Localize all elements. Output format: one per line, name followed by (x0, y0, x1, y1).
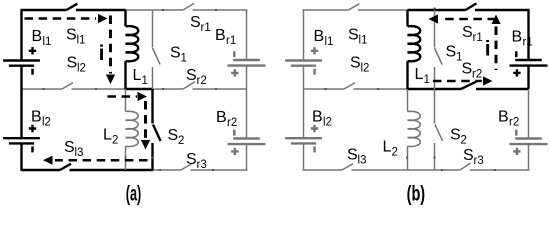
switch Sr1 blade panel a (183, 3, 194, 10)
label Br2 panel b (498, 109, 519, 129)
wire middle-left panel a (22, 88, 63, 90)
wire right rail mid panel a (246, 66, 248, 89)
battery Bl1 panel b plus sign (311, 47, 318, 54)
switch S1 blade panel b (435, 48, 443, 65)
battery Br1 panel a minus mark (233, 51, 236, 57)
battery Br1 panel b negative plate (515, 59, 542, 61)
wire middle-left panel b (304, 88, 345, 90)
wire inductor rail bottom panel a (125, 146, 127, 170)
label S1 panel b (446, 44, 463, 64)
svg-text:L: L (103, 127, 112, 144)
current arrow middle stem panel a (108, 95, 138, 98)
label Sl3 (64, 139, 83, 159)
svg-text:1: 1 (424, 74, 430, 86)
inductor L2 panel b (408, 111, 421, 146)
battery Bl2 panel b minus mark (313, 146, 316, 152)
wire left rail middle panel b (303, 66, 305, 139)
wire S2 rail top panel a (151, 89, 153, 124)
current arrow up head panel b (491, 15, 500, 25)
current arrow top head panel b (429, 14, 439, 23)
svg-text:(a): (a) (126, 183, 142, 206)
svg-text:2: 2 (461, 134, 467, 146)
label Br2 (216, 109, 237, 129)
wire top-right panel b (408, 9, 466, 11)
svg-text:l2: l2 (361, 62, 370, 74)
current arrow down-1 stem panel a (109, 16, 112, 74)
switch S2 blade panel b (435, 125, 443, 142)
switch Sr1 blade panel b (466, 3, 477, 10)
svg-text:r1: r1 (523, 36, 533, 48)
switch S2 blade panel a (153, 125, 161, 142)
svg-text:B: B (312, 109, 323, 126)
switch Sl2 blade panel b (344, 83, 355, 89)
wire right rail lower panel a (246, 144, 248, 170)
battery Bl1 panel a plus sign (29, 47, 36, 54)
svg-text:r3: r3 (197, 159, 207, 171)
switch Sr2 blade panel b (461, 82, 476, 89)
battery Br1 panel a plus sign (231, 69, 238, 76)
svg-text:S: S (446, 44, 457, 61)
battery Br1 panel a positive plate (228, 64, 266, 66)
svg-text:i: i (485, 37, 491, 60)
svg-text:S: S (66, 27, 77, 44)
wire S1 rail top panel a (152, 10, 154, 48)
label Bl2 (31, 109, 51, 129)
wire joint dot (215, 9, 217, 11)
wire joint dot (159, 169, 161, 171)
switch Sr3 blade panel b (460, 163, 470, 170)
battery Bl2 panel a plus sign (29, 125, 36, 132)
wire bottom-right panel a (153, 169, 182, 171)
battery Br2 panel b plus sign (513, 148, 520, 155)
wire middle-right panel b (435, 88, 462, 90)
battery Bl1 panel a minus mark (31, 69, 34, 75)
wire inductor rail mid panel a (124, 61, 126, 89)
label Bl2 panel b (312, 109, 332, 129)
svg-text:1: 1 (142, 75, 148, 87)
current arrow down-1 head panel a (106, 75, 115, 85)
wire left rail upper panel b (303, 10, 305, 61)
switch Sr3 blade panel a (181, 164, 192, 171)
svg-text:r3: r3 (474, 155, 484, 167)
battery Bl1 panel b negative plate (291, 64, 316, 66)
inductor L1 panel a (126, 26, 139, 61)
battery Br1 panel b plus sign (513, 69, 520, 76)
battery Bl1 panel b positive plate (285, 59, 322, 61)
battery Bl2 panel a negative plate (9, 142, 34, 144)
wire bottom-left-2 panel a (70, 169, 154, 171)
svg-text:L: L (383, 139, 392, 156)
label L2 (103, 127, 118, 147)
wire joint dot (377, 88, 379, 90)
battery Bl1 panel b minus mark (313, 69, 316, 75)
svg-text:r1: r1 (201, 22, 211, 34)
svg-text:S: S (168, 127, 179, 144)
svg-text:l2: l2 (77, 62, 86, 74)
svg-text:B: B (512, 29, 523, 46)
wire top-left panel b (303, 9, 349, 11)
svg-text:B: B (216, 109, 227, 126)
svg-text:r2: r2 (197, 75, 207, 87)
wire S2 rail top panel b (434, 89, 436, 124)
battery Br1 panel b minus mark (515, 51, 518, 57)
battery Bl2 panel a positive plate (3, 137, 40, 139)
wire S1 rail bottom panel a (152, 67, 154, 89)
battery Br2 panel b negative plate (515, 137, 542, 139)
wire joint dot (433, 7, 435, 9)
svg-text:l2: l2 (323, 116, 332, 128)
label L1 panel b (415, 66, 430, 86)
wire middle-left-2 panel b (354, 88, 408, 90)
svg-text:S: S (64, 139, 75, 156)
wire joint dot (162, 9, 164, 11)
wire top-right-2 panel b (475, 9, 530, 11)
svg-text:S: S (347, 147, 358, 164)
svg-text:l3: l3 (75, 147, 84, 159)
wire left rail upper panel a (20, 10, 22, 61)
battery Bl1 panel a positive plate (3, 59, 40, 61)
label Sl3 panel b (347, 147, 366, 167)
svg-text:S: S (450, 127, 461, 144)
wire bottom-left-2 panel b (352, 169, 436, 171)
svg-text:l1: l1 (43, 36, 52, 48)
svg-text:S: S (67, 55, 78, 72)
wire joint dot (215, 88, 217, 90)
label Sl1 panel b (348, 27, 367, 47)
wire joint dot (324, 88, 326, 90)
wire right rail mid2 panel b (528, 89, 530, 139)
wire inductor rail top panel a (124, 10, 126, 26)
wire top-right panel a (126, 9, 184, 11)
battery Bl2 panel a minus mark (31, 146, 34, 152)
label Br1 (215, 27, 236, 47)
wire top-left panel a (21, 9, 67, 11)
svg-text:r2: r2 (472, 68, 482, 80)
svg-text:S: S (170, 45, 181, 62)
label S2 panel b (450, 127, 467, 147)
svg-text:S: S (350, 55, 361, 72)
wire bottom-left panel b (303, 169, 343, 171)
wire right rail lower panel b (528, 144, 530, 170)
wire bottom-right panel b (435, 169, 461, 171)
svg-text:i: i (99, 42, 105, 65)
wire middle-left-2 panel a (72, 88, 126, 90)
wire left rail middle panel a (20, 66, 22, 139)
wire S1 rail bottom panel b (434, 67, 436, 89)
wire inductor rail top panel b (406, 10, 408, 26)
wire top-left-2 panel a (76, 9, 126, 11)
wire joint dot (441, 169, 443, 171)
wire joint dot (162, 88, 164, 90)
svg-text:l1: l1 (325, 36, 334, 48)
battery Br2 panel b minus mark (515, 130, 518, 136)
svg-text:B: B (314, 28, 325, 45)
label Bl1 panel b (314, 28, 334, 48)
svg-text:r1: r1 (473, 32, 483, 44)
svg-text:1: 1 (181, 52, 187, 64)
svg-text:B: B (31, 109, 42, 126)
svg-text:L: L (133, 67, 142, 84)
svg-text:l1: l1 (77, 34, 86, 46)
wire middle-right panel a (153, 88, 184, 90)
wire inductor rail bottom panel b (407, 146, 409, 170)
svg-text:B: B (215, 27, 226, 44)
wire bottom-left panel a (21, 169, 61, 171)
svg-text:r2: r2 (509, 116, 519, 128)
svg-text:l3: l3 (358, 154, 367, 166)
wire joint dot (95, 88, 97, 90)
svg-text:S: S (463, 147, 474, 164)
wire top-right-2 panel a (193, 9, 248, 11)
label S2 (168, 127, 185, 147)
current arrow middle head panel b (483, 76, 493, 85)
wire left rail lower panel a (20, 143, 22, 170)
label Bl1 (32, 28, 52, 48)
battery Br1 panel b positive plate (510, 64, 548, 66)
battery Br1 panel a negative plate (233, 59, 260, 61)
switch Sl1 blade panel b (348, 4, 359, 10)
label Sl2 (67, 55, 86, 75)
wire right rail mid panel b (527, 66, 529, 89)
svg-text:r1: r1 (226, 35, 236, 47)
switch Sr2 blade panel a (183, 82, 195, 89)
label S1 (170, 45, 187, 65)
switch S1 blade panel a (153, 48, 161, 65)
battery Bl2 panel b negative plate (291, 142, 316, 144)
wire S2 rail bottom panel a (151, 143, 153, 170)
svg-text:B: B (32, 28, 43, 45)
inductor L2 panel a (126, 111, 139, 146)
label Sr3 (186, 151, 207, 171)
battery Br2 panel a positive plate (228, 143, 266, 145)
label Sr3 panel b (463, 147, 484, 167)
label Sr1 panel b (462, 24, 483, 44)
wire joint dot (433, 156, 435, 158)
switch Sl2 blade panel a (62, 83, 73, 89)
battery Br2 panel a negative plate (233, 137, 260, 139)
current arrow down-2 head panel a (141, 140, 150, 150)
battery Bl1 panel a negative plate (9, 64, 34, 66)
battery Br2 panel a plus sign (231, 148, 238, 155)
wire joint dot (151, 156, 153, 158)
svg-text:2: 2 (178, 135, 184, 147)
wire middle-right-2 panel b (476, 88, 529, 90)
wire S2 rail bottom panel b (434, 143, 436, 170)
label L2 panel b (383, 139, 398, 159)
svg-text:(b): (b) (407, 183, 426, 206)
wire right rail mid2 panel a (246, 89, 248, 139)
wire S1 rail top panel b (434, 10, 436, 48)
battery Br2 panel a minus mark (233, 130, 236, 136)
current arrow up stem panel b (495, 27, 498, 71)
current arrow top stem panel b (440, 18, 496, 21)
wire joint dot (212, 169, 214, 171)
wire right rail upper panel b (527, 10, 529, 60)
battery Bl2 panel b positive plate (285, 137, 322, 139)
wire right rail upper panel a (246, 10, 248, 60)
label Sr2 (186, 67, 207, 87)
svg-text:r2: r2 (227, 117, 237, 129)
svg-text:S: S (190, 14, 201, 31)
label Sl2 panel b (350, 55, 369, 75)
current arrow bottom stem panel a (55, 159, 148, 162)
wire joint dot (494, 169, 496, 171)
inductor L1 panel b (408, 26, 421, 61)
label Sr2 panel b (462, 61, 483, 81)
svg-text:S: S (348, 27, 359, 44)
wire middle-center panel b (407, 88, 436, 90)
current arrow top stem panel a (25, 17, 97, 20)
wire top-left-2 panel b (358, 9, 408, 11)
switch Sl1 blade panel a (66, 4, 77, 10)
current arrow middle head panel a (138, 92, 148, 101)
svg-text:L: L (415, 66, 424, 83)
battery Bl2 panel b plus sign (311, 125, 318, 132)
switch Sl3 blade panel a (60, 164, 71, 170)
svg-text:2: 2 (112, 134, 118, 146)
wire joint dot (42, 88, 44, 90)
current arrow down-2 stem panel a (144, 101, 147, 140)
current arrow top head panel a (98, 14, 108, 23)
svg-text:B: B (498, 109, 509, 126)
label Sr1 (190, 14, 211, 34)
wire joint dot (406, 156, 408, 158)
wire inductor rail mid panel b (406, 61, 408, 89)
svg-text:S: S (462, 24, 473, 41)
wire joint dot (124, 156, 126, 158)
battery Br2 panel b positive plate (510, 143, 548, 145)
wire bottom-right-2 panel b (470, 169, 530, 171)
wire middle-right-2 panel a (193, 88, 247, 90)
switch Sl3 blade panel b (342, 164, 353, 170)
svg-text:l2: l2 (42, 116, 51, 128)
wire inductor rail mid2 panel b (407, 89, 409, 112)
label current i panel a (99, 42, 105, 65)
svg-text:2: 2 (392, 146, 398, 158)
svg-text:S: S (186, 151, 197, 168)
wire left rail lower panel b (303, 143, 305, 170)
wire bottom-right-2 panel a (191, 169, 248, 171)
label L1 (133, 67, 148, 87)
svg-text:S: S (462, 61, 473, 78)
svg-text:S: S (186, 67, 197, 84)
label Sl1 (66, 27, 85, 47)
current arrow bottom head panel a (43, 156, 53, 165)
wire inductor rail mid2 panel a (125, 89, 127, 112)
wire middle-center panel a (125, 88, 154, 90)
label current i panel b (485, 37, 491, 60)
current arrow middle stem panel b (433, 80, 482, 83)
svg-text:l1: l1 (359, 34, 368, 46)
label Br1 panel b (512, 29, 533, 49)
